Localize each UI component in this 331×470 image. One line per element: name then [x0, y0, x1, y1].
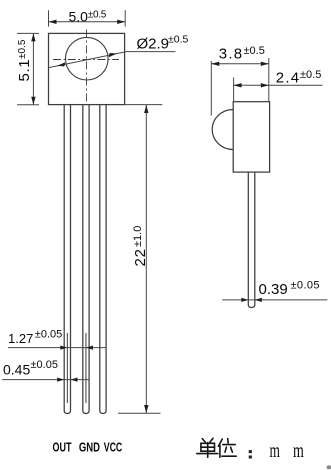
pin1 centerline extension [66, 333, 68, 403]
svg-text:Ø2.9: Ø2.9 [137, 35, 170, 52]
pin 1 (OUT) [64, 105, 70, 414]
dimension leader Ø2.9 [49, 52, 176, 68]
label 0.45±0.05 [3, 359, 58, 377]
label 1.27±0.05 [8, 329, 62, 347]
svg-text:5.0: 5.0 [69, 8, 89, 24]
dimension 0.39 [222, 299, 327, 301]
svg-text:m: m [270, 440, 281, 462]
svg-text:±0.05: ±0.05 [35, 329, 62, 341]
svg-text:2.4: 2.4 [276, 69, 300, 86]
label Ø2.9±0.5 [137, 34, 189, 53]
位 [218, 439, 222, 446]
dimension 3.8 [211, 58, 268, 116]
pin 2 (GND) [83, 105, 89, 414]
dimension 5.0 top [49, 10, 126, 26]
svg-text:±0.5: ±0.5 [17, 39, 28, 59]
svg-text:VCC: VCC [104, 440, 123, 455]
pin labels OUT GND VCC [53, 440, 123, 455]
svg-text:0.39: 0.39 [259, 281, 288, 298]
label 2.4±0.5 [276, 69, 322, 86]
fullwidth colon [249, 450, 252, 458]
svg-text:±0.5: ±0.5 [88, 9, 107, 20]
dimension 5.1 left [17, 33, 39, 104]
chinese label 单位 (unit) drawn as strokes [197, 438, 252, 458]
front view body [49, 33, 125, 104]
svg-text:m: m [293, 440, 304, 462]
side view pin [248, 172, 255, 307]
label 5.0±0.5 [69, 8, 107, 24]
label 5.1±0.5 (rotated) [16, 39, 33, 81]
svg-text:1.27: 1.27 [8, 331, 33, 346]
horizontal centerline [53, 59, 119, 61]
dimension 0.45 [2, 379, 89, 381]
svg-text:±1.0: ±1.0 [132, 226, 144, 247]
speck bottom right corner [326, 465, 331, 469]
svg-text:±0.05: ±0.05 [291, 280, 320, 292]
side view body [212, 102, 269, 308]
side view dome lens [212, 110, 233, 150]
dimension 2.4 [234, 78, 323, 102]
dimension 1.27 [8, 347, 106, 349]
svg-text:5.1: 5.1 [16, 59, 33, 82]
label 22±1.0 (rotated) [132, 226, 149, 267]
svg-text:±0.5: ±0.5 [244, 45, 265, 57]
svg-text:22: 22 [132, 248, 149, 266]
dimension 22 right [118, 105, 162, 414]
svg-text:0.45: 0.45 [3, 362, 30, 378]
svg-text:±0.5: ±0.5 [300, 69, 321, 81]
unit text m m [270, 440, 305, 462]
label 0.39±0.05 [259, 280, 320, 299]
svg-text:GND: GND [79, 440, 100, 455]
svg-text:±0.5: ±0.5 [168, 34, 189, 46]
front view lens circle [66, 37, 109, 80]
pin 3 (VCC) [100, 105, 106, 414]
单 [202, 439, 205, 442]
label 3.8±0.5 [219, 45, 265, 62]
svg-text:OUT: OUT [53, 440, 72, 455]
svg-text:±0.05: ±0.05 [31, 359, 58, 371]
vertical centerline [86, 30, 88, 105]
svg-text:3.8: 3.8 [219, 45, 243, 62]
pin2 centerline extension [85, 333, 87, 403]
